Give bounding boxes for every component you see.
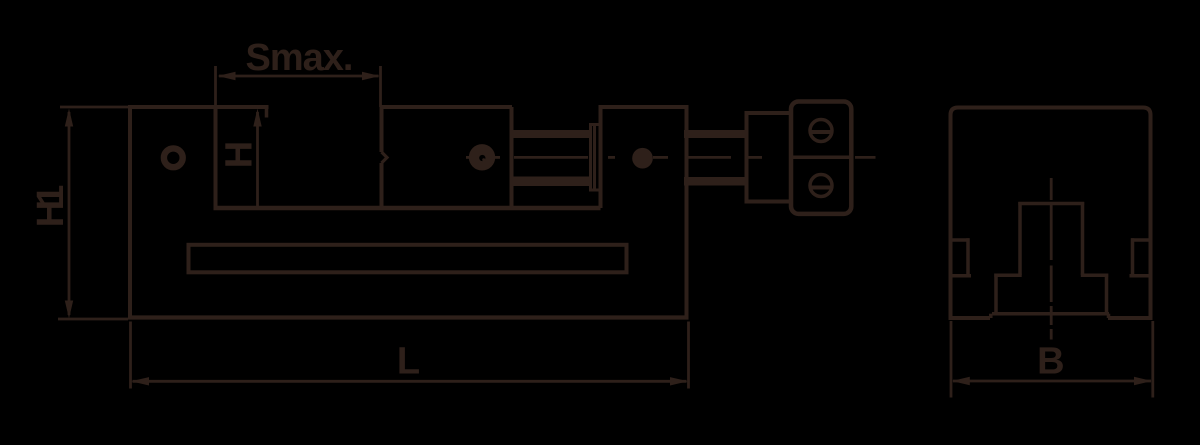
knob flange top edge [745, 111, 792, 115]
right way notch top [1131, 238, 1152, 242]
screw axis centerline [466, 156, 876, 159]
tenon base right edge [1105, 274, 1109, 316]
right way notch bottom [1130, 274, 1153, 278]
H dimension line [256, 112, 259, 208]
collar top edge [589, 123, 601, 126]
nut block top edge [599, 105, 689, 109]
svg-text:L: L [397, 341, 420, 383]
H dimension arrow [253, 109, 261, 127]
tenon base top edge left piece [994, 273, 1021, 277]
hole O in body [164, 148, 183, 167]
knob split line [790, 156, 852, 160]
B left extension line [950, 321, 953, 398]
tenon stem right edge [1081, 202, 1085, 275]
vise body left edge [128, 105, 132, 320]
base slot [189, 245, 627, 272]
knob screw slot bottom [810, 186, 833, 190]
L right extension line [687, 322, 690, 389]
screw shaft block-to-flange top [684, 130, 748, 138]
screw end disc center dot [482, 158, 485, 161]
knob flange bottom edge [745, 200, 793, 204]
Smax right extension line [379, 66, 382, 107]
left way notch top [949, 238, 970, 242]
H1 bottom arrow [65, 301, 73, 319]
vise body right edge [685, 105, 689, 320]
fixed jaw face tick [265, 107, 269, 118]
screw shaft block-to-flange bottom [684, 177, 748, 186]
H1 dimension line [68, 112, 71, 315]
svg-text:Smax.: Smax. [246, 37, 353, 79]
collar second line [593, 123, 596, 192]
screw end disc on moving jaw [469, 144, 495, 170]
end view bottom edge left piece [949, 316, 991, 320]
L left extension line [129, 322, 132, 389]
L right arrow [670, 377, 688, 385]
vise body bottom edge [128, 315, 689, 319]
H1 top arrow [65, 109, 73, 127]
screw shaft jaw-to-collar top [512, 130, 591, 138]
Smax dimension line [219, 75, 379, 78]
bed line (sliding surface) [214, 206, 601, 211]
tenon base top edge right piece [1081, 273, 1108, 277]
B dimension line [953, 380, 1151, 383]
knob body [791, 102, 851, 214]
screw end disc hole [479, 155, 485, 161]
fixed jaw left edge [214, 107, 218, 208]
tenon stem left edge [1018, 202, 1022, 275]
knob flange left edge [745, 111, 749, 204]
knob screw head top [810, 120, 832, 142]
nut block disc [632, 148, 653, 169]
svg-text:H: H [219, 141, 261, 168]
tenon base left edge [994, 274, 998, 316]
end view centerline [1050, 178, 1053, 340]
nut block left edge [599, 107, 603, 208]
break mark on jaw left edge [382, 152, 388, 163]
Smax left extension line [214, 66, 217, 107]
tenon stem top edge [1018, 202, 1084, 206]
base bottom right connector [1107, 314, 1111, 318]
moving jaw left edge upper [380, 105, 384, 152]
knob screw head bottom [810, 175, 832, 197]
H1 bottom extension line [58, 318, 128, 321]
svg-text:H1: H1 [30, 185, 72, 227]
L dimension line [133, 380, 687, 383]
knob screw slot top [810, 130, 833, 134]
right way notch left edge [1131, 238, 1135, 277]
Smax right arrow [362, 72, 380, 80]
collar bottom edge [589, 189, 601, 192]
left way notch right edge [966, 238, 970, 277]
moving jaw right edge [510, 107, 514, 208]
B right arrow [1134, 377, 1152, 385]
B left arrow [952, 377, 970, 385]
end view bottom edge right piece [1108, 316, 1153, 320]
end view outer outline (left, top, right edges) [951, 108, 1151, 321]
collar left line [589, 123, 592, 192]
B right extension line [1151, 321, 1154, 398]
tenon base bottom edge [992, 312, 1109, 316]
Smax left arrow [218, 72, 236, 80]
svg-text:B: B [1037, 341, 1064, 383]
screw shaft jaw-to-collar bottom [512, 177, 591, 187]
left way notch bottom [949, 274, 971, 278]
vise body top edge (side view) [60, 106, 128, 109]
base bottom left connector [989, 314, 993, 318]
moving jaw top edge [382, 105, 513, 109]
moving jaw left edge lower [380, 163, 384, 208]
L left arrow [131, 377, 149, 385]
